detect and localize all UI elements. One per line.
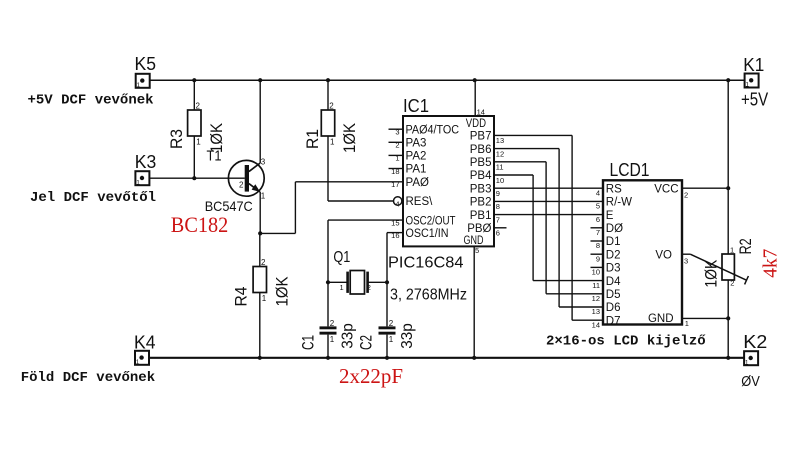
LCD1 pin 6 E — [596, 210, 614, 224]
svg-text:OSC1/IN: OSC1/IN — [406, 228, 449, 240]
IC1 pin 5 GND — [464, 235, 484, 358]
svg-text:BC182: BC182 — [171, 212, 229, 237]
LCD1 pin 7 D0 — [591, 223, 624, 237]
svg-text:4: 4 — [395, 199, 399, 208]
potentiometer R2 — [690, 254, 748, 284]
svg-text:13: 13 — [592, 307, 600, 316]
wire emitter node to PA0 — [260, 182, 403, 234]
IC1 pin 4 RES\ — [395, 196, 433, 208]
svg-text:PB7: PB7 — [470, 131, 492, 143]
wire PB6 to D6 — [494, 149, 603, 307]
svg-text:PB3: PB3 — [470, 183, 492, 195]
junction R4 rail — [258, 356, 262, 360]
svg-text:Q1: Q1 — [333, 249, 350, 266]
transistor T1 BC547C — [228, 160, 264, 196]
svg-text:12: 12 — [496, 149, 504, 158]
op-amp U1 IC1 PIC16C84 box — [403, 116, 494, 246]
svg-text:2: 2 — [261, 258, 266, 267]
wire R2 bottom to rail — [727, 280, 729, 358]
wire PB7 to D7 — [494, 135, 603, 320]
wire OSC2 to crystal — [328, 220, 403, 282]
svg-text:E: E — [606, 210, 614, 222]
junction R3 base node — [192, 176, 196, 180]
svg-text:1: 1 — [330, 335, 335, 344]
wire 0V bottom rail — [149, 357, 745, 359]
svg-text:2: 2 — [329, 102, 334, 111]
svg-text:1: 1 — [330, 137, 335, 146]
IC1 pin 9 PB3 — [470, 183, 500, 198]
svg-text:PBØ: PBØ — [467, 223, 491, 235]
wire PB3 to RS — [494, 187, 603, 189]
svg-text:2: 2 — [684, 191, 688, 200]
svg-text:17: 17 — [391, 180, 399, 189]
IC1 pin 15 OSC2/OUT — [391, 215, 455, 227]
svg-text:33p: 33p — [399, 323, 416, 349]
svg-text:6: 6 — [496, 229, 500, 238]
resistor R3 — [188, 102, 202, 147]
svg-text:1: 1 — [685, 319, 689, 328]
junction R1 rail — [326, 78, 330, 82]
capacitor C1 — [320, 282, 337, 358]
svg-text:PB1: PB1 — [470, 210, 492, 222]
wire K3 to T1 base — [149, 177, 244, 179]
svg-text:2: 2 — [330, 319, 335, 328]
wire rail down to R2 — [727, 80, 729, 254]
svg-text:10: 10 — [496, 176, 504, 185]
svg-text:LCD1: LCD1 — [610, 160, 650, 180]
svg-text:D7: D7 — [606, 315, 621, 327]
IC1 pin 12 PB6 — [470, 144, 504, 159]
LCD1 pin 13 D6 — [592, 302, 621, 316]
junction VCC node — [726, 186, 730, 190]
svg-text:14: 14 — [477, 108, 485, 117]
svg-text:1: 1 — [136, 359, 140, 366]
svg-text:6: 6 — [596, 215, 600, 224]
svg-text:DØ: DØ — [606, 223, 623, 235]
svg-text:7: 7 — [496, 215, 500, 224]
resistor R1 — [321, 102, 335, 147]
svg-text:1ØK: 1ØK — [702, 259, 721, 288]
svg-text:C1: C1 — [298, 335, 317, 350]
svg-text:PIC16C84: PIC16C84 — [388, 255, 464, 272]
svg-text:1: 1 — [340, 283, 344, 292]
IC1 pin 18 PA1 — [389, 164, 427, 176]
terminal K3 — [135, 171, 149, 186]
junction crystal right — [385, 280, 389, 284]
wire PB5 to D5 — [494, 162, 603, 294]
LCD1 pin 9 D2 — [591, 249, 621, 263]
svg-text:D1: D1 — [606, 236, 621, 248]
junction GND node — [726, 316, 730, 320]
terminal K4 — [135, 351, 149, 366]
svg-text:PB6: PB6 — [470, 144, 492, 156]
RES inverter bubble — [394, 197, 402, 205]
IC1 pin 7 PB1 — [470, 210, 500, 225]
svg-text:1: 1 — [730, 246, 734, 255]
IC1 pin 16 OSC1/IN — [391, 228, 448, 240]
LCD1 pin 2 VCC — [654, 183, 728, 199]
svg-text:5: 5 — [596, 202, 600, 211]
svg-text:+5V: +5V — [741, 90, 768, 110]
svg-text:1ØK: 1ØK — [340, 122, 359, 153]
LCD1 pin 5 R/-W — [596, 197, 632, 211]
svg-text:VDD: VDD — [466, 118, 486, 130]
wire R1 bottom to RES — [328, 136, 393, 201]
IC1 pin 11 PB5 — [470, 157, 504, 172]
svg-text:2: 2 — [239, 181, 244, 190]
LCD1 pin 12 D5 — [592, 289, 621, 303]
junction rail R2 — [726, 78, 730, 82]
wire PB1 to E — [494, 214, 603, 216]
junction C2 rail — [385, 356, 389, 360]
wire PB2 to R/W — [494, 200, 603, 202]
svg-text:9: 9 — [496, 189, 500, 198]
wire R3 bottom to base node — [193, 136, 195, 178]
svg-text:14: 14 — [592, 320, 600, 329]
svg-text:RS: RS — [606, 183, 622, 195]
svg-text:2: 2 — [389, 319, 394, 328]
svg-text:D5: D5 — [606, 289, 621, 301]
wire T1 emitter down — [259, 192, 261, 234]
resistor R4 — [253, 258, 267, 303]
svg-text:2x22pF: 2x22pF — [339, 364, 403, 388]
svg-text:D6: D6 — [606, 302, 621, 314]
junction crystal left — [326, 280, 330, 284]
junction C1 rail — [326, 356, 330, 360]
svg-text:D4: D4 — [606, 276, 621, 288]
wire T1 collector to rail — [259, 80, 261, 163]
junction IC GND rail — [472, 356, 476, 360]
svg-text:11: 11 — [592, 281, 600, 290]
wire rail to R1 top — [327, 80, 329, 110]
svg-text:8: 8 — [496, 202, 500, 211]
svg-text:VCC: VCC — [654, 183, 678, 195]
svg-text:R/-W: R/-W — [606, 197, 632, 209]
svg-text:2: 2 — [367, 283, 371, 292]
svg-text:10: 10 — [592, 268, 600, 277]
svg-text:+5V DCF vevőnek: +5V DCF vevőnek — [28, 93, 154, 109]
LCD1 pin 8 D1 — [591, 236, 621, 250]
IC1 pin 3 PA04/TOC — [389, 124, 460, 136]
svg-text:PAØ4/TOC: PAØ4/TOC — [406, 124, 460, 136]
svg-text:1: 1 — [745, 82, 749, 89]
svg-text:ØV: ØV — [741, 373, 760, 390]
svg-text:K4: K4 — [134, 332, 156, 352]
junction VDD rail — [473, 78, 477, 82]
svg-text:33p: 33p — [340, 323, 357, 349]
svg-text:1ØK: 1ØK — [272, 276, 291, 307]
crystal Q1 — [328, 271, 387, 295]
wire PB0 stub — [494, 227, 507, 229]
svg-text:1: 1 — [137, 82, 141, 89]
svg-text:T1: T1 — [207, 149, 222, 165]
wire OSC1 to crystal — [387, 233, 403, 283]
IC1 pin 6 PB0 — [467, 223, 500, 238]
svg-text:18: 18 — [391, 167, 399, 176]
svg-text:Jel DCF vevőtől: Jel DCF vevőtől — [30, 190, 156, 206]
capacitor C2 — [379, 282, 396, 358]
IC1 pin 8 PB2 — [470, 197, 500, 212]
svg-text:1: 1 — [262, 294, 267, 303]
junction collector rail — [258, 78, 262, 82]
IC1 pin 17 PA0 — [391, 177, 429, 189]
svg-text:7: 7 — [596, 228, 600, 237]
wire emitter node to R4 — [259, 233, 261, 266]
svg-text:D3: D3 — [606, 263, 621, 275]
svg-text:2: 2 — [196, 102, 201, 111]
svg-text:K3: K3 — [135, 152, 157, 172]
svg-text:R2: R2 — [736, 238, 755, 254]
terminal K2 — [744, 351, 758, 366]
wire R4 bottom to rail — [259, 293, 261, 358]
IC1 pin 10 PB4 — [470, 170, 504, 185]
LCD1 pin 3 VO — [655, 249, 690, 265]
svg-text:2: 2 — [730, 279, 734, 288]
IC1 pin 2 PA3 — [389, 138, 427, 150]
svg-text:13: 13 — [496, 136, 504, 145]
LCD1 pin 1 GND — [648, 313, 728, 328]
svg-text:12: 12 — [592, 294, 600, 303]
svg-text:1: 1 — [745, 359, 749, 366]
svg-text:2×16-os LCD kijelző: 2×16-os LCD kijelző — [546, 334, 706, 350]
svg-text:PA2: PA2 — [406, 151, 427, 163]
svg-text:D2: D2 — [606, 249, 621, 261]
svg-text:11: 11 — [496, 163, 504, 172]
LCD1 box — [603, 180, 682, 324]
svg-text:PB2: PB2 — [470, 197, 492, 209]
svg-text:GND: GND — [648, 313, 674, 325]
IC1 pin 1 PA2 — [389, 151, 427, 163]
svg-text:C2: C2 — [356, 335, 375, 350]
wire K5 rail to R3 top — [193, 80, 195, 110]
svg-text:R1: R1 — [303, 129, 322, 149]
svg-text:PB5: PB5 — [470, 157, 492, 169]
svg-text:3: 3 — [395, 128, 399, 137]
svg-text:K2: K2 — [743, 332, 767, 352]
svg-text:IC1: IC1 — [403, 96, 429, 116]
wire +5V top rail — [150, 79, 745, 81]
LCD1 pin 14 D7 — [592, 315, 621, 329]
svg-text:1: 1 — [261, 192, 266, 201]
junction emitter node — [258, 231, 262, 235]
svg-text:PA3: PA3 — [406, 138, 427, 150]
svg-text:4k7: 4k7 — [759, 249, 781, 278]
svg-text:2: 2 — [395, 141, 399, 150]
svg-text:OSC2/OUT: OSC2/OUT — [406, 215, 456, 227]
svg-text:R3: R3 — [167, 129, 186, 149]
svg-text:9: 9 — [596, 254, 600, 263]
svg-text:8: 8 — [596, 241, 600, 250]
svg-text:1: 1 — [389, 335, 394, 344]
junction R3-top rail — [192, 78, 196, 82]
LCD1 pin 10 D3 — [591, 263, 621, 277]
junction R2 rail — [726, 356, 730, 360]
svg-text:GND: GND — [464, 235, 484, 247]
svg-text:K5: K5 — [135, 54, 157, 74]
LCD1 pin 11 D4 — [592, 276, 621, 290]
terminal K1 — [745, 74, 759, 89]
IC1 pin 13 PB7 — [470, 131, 504, 146]
terminal K5 — [136, 74, 150, 89]
LCD1 pin 4 RS — [596, 183, 622, 197]
svg-text:R4: R4 — [232, 287, 251, 307]
svg-text:PB4: PB4 — [470, 170, 492, 182]
svg-text:VO: VO — [655, 249, 672, 261]
svg-text:1: 1 — [395, 154, 399, 163]
svg-text:3, 2768MHz: 3, 2768MHz — [390, 287, 467, 304]
svg-text:1: 1 — [136, 179, 140, 186]
wire PB4 to D4 — [494, 175, 603, 281]
svg-text:4: 4 — [596, 188, 600, 197]
svg-text:3: 3 — [684, 257, 688, 266]
svg-text:Föld DCF vevőnek: Föld DCF vevőnek — [21, 370, 155, 386]
svg-text:K1: K1 — [743, 55, 764, 75]
svg-text:PAØ: PAØ — [406, 177, 429, 189]
svg-text:3: 3 — [261, 158, 266, 167]
svg-text:RES\: RES\ — [406, 196, 434, 208]
svg-text:PA1: PA1 — [406, 164, 427, 176]
IC1 pin 14 VDD — [466, 80, 486, 130]
svg-text:1: 1 — [196, 137, 201, 146]
